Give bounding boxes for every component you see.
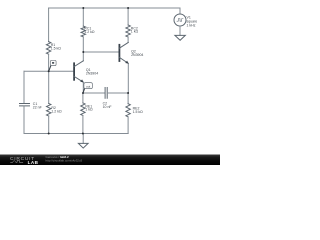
wire: RC1 top — [82, 8, 84, 26]
svg-text:http://circuitlab.com/c4y32u3: http://circuitlab.com/c4y32u3 — [46, 159, 83, 163]
wire: R2 top — [48, 71, 50, 103]
wire: C2 right to RE2 node — [107, 92, 128, 94]
ground stem below rail — [82, 134, 84, 144]
node: RC1 top rail — [82, 7, 84, 9]
svg-text:1 kHz: 1 kHz — [187, 24, 196, 28]
transistor Q2 body — [118, 45, 120, 61]
resistor RC1 — [81, 26, 85, 37]
node: RE1 ground rail — [82, 133, 84, 135]
wire: RE1 top — [82, 93, 84, 103]
transistor Q1 body — [73, 63, 75, 80]
svg-text:22 nF: 22 nF — [33, 105, 42, 109]
wire: V1 top connection — [179, 8, 181, 14]
wire: R1 top vertical — [48, 8, 50, 42]
node: R2 bottom rail — [48, 133, 50, 135]
transistor Q2 emitter stroke — [119, 57, 128, 63]
wire: RC1 bottom to collector node — [82, 37, 84, 52]
wire: RC2 bottom to Q2 collector — [127, 37, 129, 42]
node: C2 / RE2 / Q2 emitter — [127, 92, 129, 94]
wire: RE2 top — [127, 93, 129, 104]
svg-text:2N3904: 2N3904 — [131, 53, 143, 57]
wire: emitter node horizontal to C2 — [83, 92, 105, 94]
probe flag "in" at input node — [49, 60, 56, 70]
svg-text:out: out — [86, 84, 90, 88]
node: RC2 top rail — [127, 7, 129, 9]
V1 square-wave glyph — [177, 19, 183, 22]
wire: bottom rail — [24, 133, 128, 135]
svg-text:1 kΩ: 1 kΩ — [131, 30, 139, 34]
transistor Q1 emitter stroke — [74, 76, 83, 82]
svg-text:2N3904: 2N3904 — [86, 72, 98, 76]
svg-text:LAB: LAB — [28, 160, 39, 165]
wire: Q1 collector vertical — [82, 52, 84, 61]
svg-text:1.5 kΩ: 1.5 kΩ — [133, 110, 144, 114]
wire: Q2 emitter vertical — [127, 63, 129, 93]
wire: R2 bottom — [48, 116, 50, 134]
wire: RE2 bottom — [127, 117, 129, 133]
resistor RC2 — [126, 25, 130, 37]
capacitor C1 — [20, 104, 30, 106]
junction node dots — [48, 7, 129, 135]
transistor Q2 emitter arrowhead — [125, 61, 128, 64]
svg-text:1.5 kΩ: 1.5 kΩ — [51, 46, 62, 50]
wire: input left corner down to C1 — [23, 71, 25, 103]
ground symbol (V1) — [175, 35, 185, 40]
svg-text:10 nF: 10 nF — [103, 105, 112, 109]
wire: RC2 top — [127, 8, 129, 25]
wire: V1 bottom to ground — [179, 26, 181, 35]
node: Q1 emitter / RE1 / C2 — [82, 92, 84, 94]
capacitor C2 — [105, 88, 107, 99]
transistor Q1 emitter arrowhead — [80, 79, 83, 82]
wire: input node horizontal — [24, 70, 74, 72]
wire: Q1 emitter vertical — [82, 82, 84, 93]
node: input R1/R2 — [48, 70, 50, 72]
voltage source V1 circle — [174, 14, 186, 26]
svg-text:1.2 kΩ: 1.2 kΩ — [51, 109, 62, 113]
component value labels — [33, 15, 197, 114]
resistor R2 — [47, 103, 51, 116]
resistor R1 — [46, 42, 50, 55]
ground symbol (bottom) — [78, 143, 88, 148]
probe flag "out" at emitter node — [83, 83, 92, 93]
svg-text:1 kΩ: 1 kΩ — [85, 108, 93, 112]
CircuitLab logo — [10, 156, 39, 165]
wire: R1 bottom to input node — [48, 54, 50, 71]
wire: C1 bottom to ground rail — [23, 106, 25, 134]
resistor RE1 — [81, 103, 85, 116]
transistor Q1 collector stroke — [74, 61, 83, 67]
svg-text:1.2 kΩ: 1.2 kΩ — [84, 30, 95, 34]
transistor Q2 collector stroke — [119, 42, 128, 48]
node: Q1 collector / Q2 base — [82, 51, 84, 53]
wire: collector node to Q2 base — [83, 51, 119, 53]
resistor RE2 — [126, 104, 130, 117]
wire: RE1 bottom — [82, 116, 84, 134]
wire: top supply rail — [49, 7, 180, 9]
